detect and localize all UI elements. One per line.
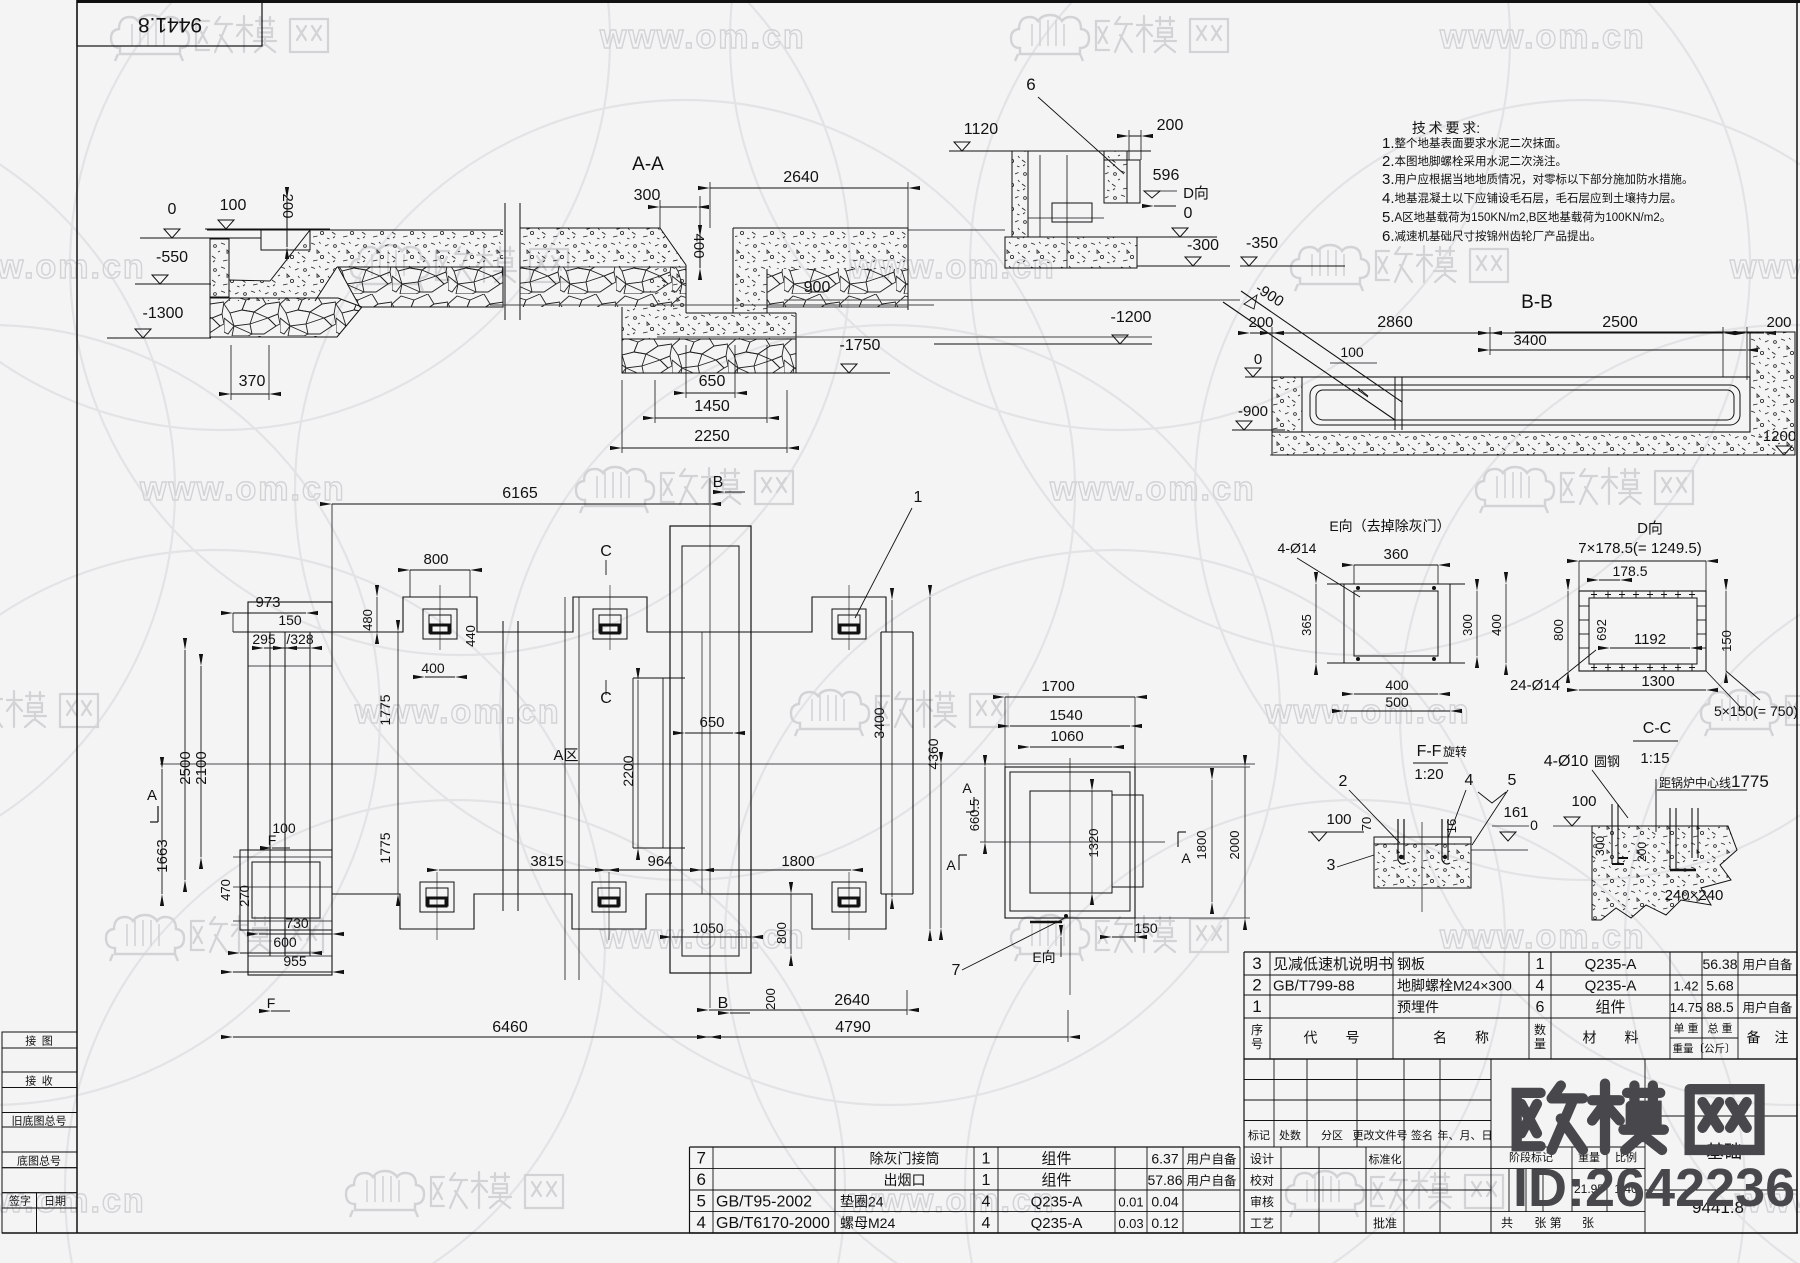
svg-text:1060: 1060 xyxy=(1050,728,1083,745)
svg-text:400: 400 xyxy=(1385,677,1409,693)
svg-text:365: 365 xyxy=(1299,614,1314,636)
svg-text:见减低速机说明书: 见减低速机说明书 xyxy=(1273,956,1393,973)
svg-text:150: 150 xyxy=(1719,630,1734,652)
svg-text:E向: E向 xyxy=(1032,949,1055,965)
svg-text:440: 440 xyxy=(463,625,478,647)
svg-text:-550: -550 xyxy=(156,249,188,266)
svg-text:955: 955 xyxy=(283,953,307,969)
svg-text:161: 161 xyxy=(1503,804,1528,821)
svg-text:100: 100 xyxy=(220,197,247,214)
svg-text:650: 650 xyxy=(699,373,726,390)
svg-text:ID:2642236: ID:2642236 xyxy=(1513,1158,1795,1218)
svg-text:1320: 1320 xyxy=(1086,829,1101,858)
svg-text:总 重: 总 重 xyxy=(1707,1021,1732,1035)
svg-text:1: 1 xyxy=(914,489,923,506)
svg-text:旋转: 旋转 xyxy=(1443,744,1467,759)
svg-text:Q235-A: Q235-A xyxy=(1585,956,1637,973)
svg-text:650: 650 xyxy=(699,714,724,731)
svg-text:2.本图地脚螺栓采用水泥二次浇注。: 2.本图地脚螺栓采用水泥二次浇注。 xyxy=(1382,153,1567,170)
svg-text:www.om.cn: www.om.cn xyxy=(1439,918,1646,956)
svg-text:5: 5 xyxy=(1508,772,1517,789)
svg-text:295: 295 xyxy=(252,631,276,647)
svg-text:5.68: 5.68 xyxy=(1706,978,1733,994)
svg-text:2500: 2500 xyxy=(1602,314,1638,331)
svg-text:/328: /328 xyxy=(286,631,313,647)
svg-text:200: 200 xyxy=(1157,117,1184,134)
svg-text:300: 300 xyxy=(634,187,661,204)
svg-text:100: 100 xyxy=(1326,811,1351,828)
svg-text:组件: 组件 xyxy=(1041,1150,1071,1167)
svg-text:0.01: 0.01 xyxy=(1118,1194,1143,1209)
svg-text:3400: 3400 xyxy=(871,707,887,738)
svg-text:组件: 组件 xyxy=(1595,999,1625,1016)
svg-text:A-A: A-A xyxy=(632,154,664,175)
svg-text:材 料: 材 料 xyxy=(1583,1030,1639,1046)
svg-text:1120: 1120 xyxy=(964,121,999,138)
svg-text:1663: 1663 xyxy=(154,839,171,872)
svg-text:70: 70 xyxy=(1359,817,1374,831)
svg-text:24-Ø14: 24-Ø14 xyxy=(1510,677,1560,694)
svg-text:470: 470 xyxy=(218,879,233,901)
svg-text:钢板: 钢板 xyxy=(1397,956,1425,972)
svg-text:400: 400 xyxy=(690,233,707,258)
svg-text:-1750: -1750 xyxy=(840,337,881,354)
svg-text:F: F xyxy=(268,832,277,848)
svg-text:4790: 4790 xyxy=(835,1019,871,1036)
svg-text:1450: 1450 xyxy=(694,398,730,415)
svg-text:7: 7 xyxy=(952,962,961,979)
plan dim 6165 xyxy=(332,503,709,505)
svg-text:692: 692 xyxy=(1594,619,1609,641)
svg-text:用户自备: 用户自备 xyxy=(1186,1151,1237,1166)
svg-text:1: 1 xyxy=(982,1172,991,1189)
svg-text:4: 4 xyxy=(697,1213,706,1232)
svg-text:审核: 审核 xyxy=(1250,1194,1274,1209)
svg-text:0.03: 0.03 xyxy=(1118,1216,1143,1231)
svg-text:2860: 2860 xyxy=(1377,314,1413,331)
svg-text:数: 数 xyxy=(1534,1022,1546,1037)
svg-text:2640: 2640 xyxy=(834,992,870,1009)
svg-text:200: 200 xyxy=(1635,842,1649,862)
title box 9441.8 top-left xyxy=(77,1,262,46)
svg-text:1300: 1300 xyxy=(1641,673,1674,690)
svg-text:-1200: -1200 xyxy=(1111,309,1152,326)
svg-text:9441.8: 9441.8 xyxy=(138,13,202,36)
svg-text:组件: 组件 xyxy=(1041,1172,1071,1189)
svg-text:270: 270 xyxy=(237,885,252,907)
svg-text:150: 150 xyxy=(1134,920,1158,936)
svg-text:2250: 2250 xyxy=(694,428,730,445)
svg-text:标准化: 标准化 xyxy=(1369,1152,1402,1166)
svg-text:共: 共 xyxy=(1501,1216,1513,1230)
C-C concrete blob xyxy=(1592,826,1737,920)
svg-text:www.om.cn: www.om.cn xyxy=(0,248,146,286)
svg-text:57.86: 57.86 xyxy=(1147,1172,1182,1188)
svg-text:张 第: 张 第 xyxy=(1534,1216,1561,1230)
svg-text:用户自备: 用户自备 xyxy=(1742,957,1793,972)
svg-text:0: 0 xyxy=(1530,817,1538,833)
svg-text:单 重: 单 重 xyxy=(1673,1021,1698,1035)
svg-text:4: 4 xyxy=(982,1193,991,1210)
svg-text:B: B xyxy=(713,474,724,491)
svg-text:14.75: 14.75 xyxy=(1670,1000,1703,1015)
plan internal verticals xyxy=(502,621,504,911)
svg-text:张: 张 xyxy=(1582,1216,1594,1230)
svg-text:2: 2 xyxy=(1339,773,1348,790)
svg-text:-1300: -1300 xyxy=(143,305,184,322)
svg-text:4: 4 xyxy=(982,1215,991,1232)
svg-text:4.地基混凝土以下应铺设毛石层，毛石层应到土壤持力层。: 4.地基混凝土以下应铺设毛石层，毛石层应到土壤持力层。 xyxy=(1382,190,1682,207)
svg-text:0.12: 0.12 xyxy=(1151,1215,1178,1231)
svg-text:-300: -300 xyxy=(1187,237,1219,254)
svg-text:A: A xyxy=(962,780,972,796)
svg-text:1700: 1700 xyxy=(1041,678,1074,695)
svg-text:1540: 1540 xyxy=(1049,707,1082,724)
svg-text:240×240: 240×240 xyxy=(1665,887,1724,904)
svg-text:www.om.cn: www.om.cn xyxy=(599,18,806,56)
svg-text:400: 400 xyxy=(421,660,445,676)
svg-text:除灰门接筒: 除灰门接筒 xyxy=(870,1150,940,1166)
svg-text:3: 3 xyxy=(1327,857,1336,874)
svg-text:GB/T6170-2000: GB/T6170-2000 xyxy=(716,1215,830,1232)
svg-text:GB/T799-88: GB/T799-88 xyxy=(1273,978,1355,995)
plan centerline A xyxy=(160,763,1255,765)
svg-text:地脚螺栓M24×300: 地脚螺栓M24×300 xyxy=(1397,978,1512,994)
svg-text:Q235-A: Q235-A xyxy=(1031,1193,1083,1210)
svg-text:1800: 1800 xyxy=(781,853,814,870)
svg-text:2640: 2640 xyxy=(783,169,819,186)
svg-text:7×178.5(= 1249.5): 7×178.5(= 1249.5) xyxy=(1578,540,1701,557)
svg-text:www.om.cn: www.om.cn xyxy=(139,470,346,508)
svg-text:-900: -900 xyxy=(1238,403,1268,420)
svg-text:5: 5 xyxy=(697,1191,706,1210)
svg-text:1.42: 1.42 xyxy=(1673,979,1698,994)
svg-text:730: 730 xyxy=(285,915,309,931)
svg-text:号: 号 xyxy=(1251,1037,1263,1051)
svg-text:1: 1 xyxy=(1536,956,1545,973)
svg-text:0: 0 xyxy=(1184,205,1193,222)
inner mid rect xyxy=(632,678,634,848)
title block xyxy=(1244,1059,1797,1233)
svg-text:A: A xyxy=(147,787,157,804)
svg-text:年、月、日: 年、月、日 xyxy=(1438,1128,1493,1142)
svg-text:序: 序 xyxy=(1251,1022,1263,1037)
bottom-center parts table xyxy=(690,1146,1241,1148)
svg-text:100: 100 xyxy=(1340,344,1364,360)
svg-text:88.5: 88.5 xyxy=(1706,999,1733,1015)
svg-text:300: 300 xyxy=(1460,614,1475,636)
svg-text:4360: 4360 xyxy=(925,738,941,769)
svg-text:螺母M24: 螺母M24 xyxy=(840,1215,895,1231)
svg-text:C: C xyxy=(600,543,612,560)
svg-text:重量〔公斤〕: 重量〔公斤〕 xyxy=(1673,1042,1736,1055)
svg-text:代 号: 代 号 xyxy=(1304,1030,1360,1046)
svg-text:5×150(= 750): 5×150(= 750) xyxy=(1714,703,1798,719)
svg-text:签字: 签字 xyxy=(9,1194,31,1208)
plan bolt pads xyxy=(423,609,457,639)
svg-text:量: 量 xyxy=(1534,1037,1546,1051)
svg-text:1.整个地基表面要求水泥二次抹面。: 1.整个地基表面要求水泥二次抹面。 xyxy=(1382,135,1567,152)
svg-text:A: A xyxy=(946,857,956,873)
E direction pit plan xyxy=(1005,696,1135,698)
svg-text:处数: 处数 xyxy=(1279,1129,1301,1142)
svg-text:校对: 校对 xyxy=(1250,1173,1274,1188)
svg-text:6: 6 xyxy=(1536,999,1545,1016)
svg-text:0: 0 xyxy=(1254,351,1262,368)
svg-text:1:15: 1:15 xyxy=(1640,750,1669,767)
svg-text:7: 7 xyxy=(697,1148,706,1167)
svg-text:360: 360 xyxy=(1383,546,1408,563)
svg-text:1775: 1775 xyxy=(377,832,393,863)
svg-text:900: 900 xyxy=(804,279,831,296)
svg-text:56.38: 56.38 xyxy=(1702,956,1737,972)
svg-text:600: 600 xyxy=(273,934,297,950)
svg-text:3400: 3400 xyxy=(1513,332,1546,349)
svg-text:3.用户应根据当地地质情况，对零标以下部分施加防水措施。: 3.用户应根据当地地质情况，对零标以下部分施加防水措施。 xyxy=(1382,171,1694,188)
svg-text:2: 2 xyxy=(1252,976,1261,995)
svg-text:16: 16 xyxy=(1444,819,1459,833)
svg-text:6: 6 xyxy=(697,1170,706,1189)
svg-text:6460: 6460 xyxy=(492,1019,528,1036)
svg-text:F-F: F-F xyxy=(1417,743,1442,760)
svg-text:出烟口: 出烟口 xyxy=(884,1172,926,1188)
svg-text:200: 200 xyxy=(763,988,778,1010)
chimney foundation rect xyxy=(670,526,751,973)
svg-text:2000: 2000 xyxy=(1227,831,1242,860)
svg-text:技 术 要 求:: 技 术 要 求: xyxy=(1412,120,1480,136)
svg-text:C-C: C-C xyxy=(1643,720,1671,737)
svg-text:596: 596 xyxy=(1153,167,1180,184)
svg-text:1800: 1800 xyxy=(1194,831,1209,860)
svg-text:www.om.cn: www.om.cn xyxy=(1729,248,1800,286)
plan view outline xyxy=(332,597,886,632)
svg-text:4-Ø14: 4-Ø14 xyxy=(1278,540,1317,556)
svg-text:964: 964 xyxy=(647,853,672,870)
svg-text:4: 4 xyxy=(1536,978,1545,995)
svg-text:6.减速机基础尺寸按锦州齿轮厂产品提出。: 6.减速机基础尺寸按锦州齿轮厂产品提出。 xyxy=(1382,228,1602,245)
svg-text:480: 480 xyxy=(360,609,375,631)
svg-text:签名: 签名 xyxy=(1411,1128,1433,1142)
svg-text:分区: 分区 xyxy=(1321,1129,1343,1142)
svg-text:-1200: -1200 xyxy=(1758,428,1796,445)
svg-text:0: 0 xyxy=(168,201,177,218)
svg-text:D向: D向 xyxy=(1637,520,1663,537)
plan dims left xyxy=(233,612,306,614)
svg-text:1192: 1192 xyxy=(1634,631,1666,648)
right BOM table xyxy=(1244,951,1797,953)
svg-text:1: 1 xyxy=(1252,997,1261,1016)
svg-text:6.37: 6.37 xyxy=(1151,1150,1178,1166)
svg-text:更改文件号: 更改文件号 xyxy=(1353,1128,1408,1142)
svg-text:Q235-A: Q235-A xyxy=(1585,978,1637,995)
svg-text:GB/T95-2002: GB/T95-2002 xyxy=(716,1193,812,1210)
svg-text:批准: 批准 xyxy=(1373,1216,1397,1231)
svg-text:400: 400 xyxy=(1489,614,1504,636)
svg-text:800: 800 xyxy=(1551,619,1566,641)
plan dims middle xyxy=(410,569,470,571)
svg-text:www.om.cn: www.om.cn xyxy=(1439,18,1646,56)
svg-text:名 称: 名 称 xyxy=(1433,1030,1489,1046)
svg-text:1050: 1050 xyxy=(692,920,723,936)
svg-text:用户自备: 用户自备 xyxy=(1186,1173,1237,1188)
big omw logo xyxy=(1517,1084,1760,1150)
svg-text:www.om.cn: www.om.cn xyxy=(1049,470,1256,508)
svg-text:500: 500 xyxy=(1385,694,1409,710)
svg-text:工艺: 工艺 xyxy=(1250,1217,1274,1231)
svg-text:Q235-A: Q235-A xyxy=(1031,1215,1083,1232)
svg-text:E向（去掉除灰门）: E向（去掉除灰门） xyxy=(1329,518,1450,534)
svg-text:接 收: 接 收 xyxy=(25,1073,53,1087)
left margin boxes xyxy=(2,1032,77,1048)
svg-text:A: A xyxy=(1181,850,1191,866)
svg-text:0.04: 0.04 xyxy=(1151,1193,1178,1209)
svg-text:接 图: 接 图 xyxy=(25,1035,53,1048)
svg-text:旧底图总号: 旧底图总号 xyxy=(12,1113,67,1127)
svg-text:973: 973 xyxy=(255,594,280,611)
svg-text:200: 200 xyxy=(1248,314,1273,331)
F-F anchor block xyxy=(1374,837,1471,844)
svg-text:6165: 6165 xyxy=(502,485,538,502)
svg-text:D向: D向 xyxy=(1183,185,1209,202)
svg-text:2100: 2100 xyxy=(193,751,210,784)
svg-text:设计: 设计 xyxy=(1250,1152,1274,1166)
svg-text:垫圈24: 垫圈24 xyxy=(840,1193,884,1209)
svg-text:B: B xyxy=(718,995,729,1012)
svg-text:1: 1 xyxy=(982,1150,991,1167)
svg-text:底图总号: 底图总号 xyxy=(17,1153,61,1167)
svg-text:178.5: 178.5 xyxy=(1612,563,1647,579)
svg-text:370: 370 xyxy=(239,373,266,390)
svg-text:3815: 3815 xyxy=(530,853,563,870)
svg-text:2200: 2200 xyxy=(620,755,636,786)
svg-text:1:20: 1:20 xyxy=(1414,766,1443,783)
svg-text:200: 200 xyxy=(1766,314,1791,331)
svg-text:日期: 日期 xyxy=(44,1195,66,1208)
plan left shape xyxy=(248,602,332,975)
svg-text:2500: 2500 xyxy=(177,751,194,784)
section A-A right part xyxy=(710,187,908,189)
svg-text:800: 800 xyxy=(423,551,448,568)
svg-text:圆钢: 圆钢 xyxy=(1594,754,1620,769)
svg-text:www.om.cn: www.om.cn xyxy=(1264,693,1471,731)
svg-text:4-Ø10: 4-Ø10 xyxy=(1544,753,1589,770)
svg-text:-350: -350 xyxy=(1246,235,1278,252)
plan dims bottom xyxy=(672,936,751,938)
svg-text:300: 300 xyxy=(1593,836,1607,856)
svg-text:5.A区地基载荷为150KN/m2,B区地基载荷为100KN: 5.A区地基载荷为150KN/m2,B区地基载荷为100KN/m2。 xyxy=(1382,209,1671,226)
svg-text:6: 6 xyxy=(1026,75,1035,94)
svg-text:F: F xyxy=(267,995,276,1011)
svg-text:B-B: B-B xyxy=(1521,292,1553,313)
sheet frame xyxy=(77,0,1800,3)
svg-text:预埋件: 预埋件 xyxy=(1397,999,1439,1015)
svg-text:用户自备: 用户自备 xyxy=(1742,1000,1793,1015)
svg-text:3: 3 xyxy=(1252,954,1261,973)
svg-text:100: 100 xyxy=(1571,793,1596,810)
svg-text:1775: 1775 xyxy=(377,694,393,725)
svg-text:800: 800 xyxy=(774,922,789,944)
svg-text:备 注: 备 注 xyxy=(1747,1030,1789,1046)
svg-text:4: 4 xyxy=(1465,772,1474,789)
svg-text:标记: 标记 xyxy=(1248,1128,1270,1142)
svg-text:150: 150 xyxy=(278,612,302,628)
svg-text:A区: A区 xyxy=(553,747,578,764)
